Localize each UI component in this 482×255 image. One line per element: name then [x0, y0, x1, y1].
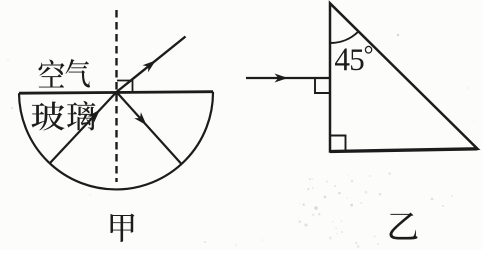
- scan noise speckles: [326, 180, 328, 182]
- prism incident ray line: [246, 77, 329, 79]
- right-angle mark at entry face: [315, 79, 329, 93]
- incident ray in glass: [50, 92, 117, 163]
- prism bottom edge (thicker): [330, 149, 478, 152]
- right-angle mark at corner: [331, 136, 346, 151]
- refracted ray arrowhead: [143, 60, 156, 72]
- incident ray arrowhead: [88, 110, 101, 123]
- label li (glass char2): [67, 101, 96, 130]
- reflected ray arrowhead: [134, 112, 146, 125]
- label kong (air char1): [39, 60, 65, 88]
- 45 degree label digit 4: [335, 49, 349, 71]
- 45 degree label degree sign: [365, 46, 373, 54]
- caption yi: [390, 212, 418, 239]
- glass semicircle arc: [19, 92, 213, 190]
- prism triangle: [330, 3, 478, 151]
- 45 degree label digit 5: [351, 49, 363, 70]
- label qi (air char2): [65, 59, 90, 88]
- glass flat surface: [19, 92, 213, 94]
- refracted ray in air: [117, 37, 186, 93]
- caption jia: [111, 214, 135, 242]
- 45 degree arc: [330, 32, 358, 43]
- normal dashed line: [115, 10, 117, 182]
- reflected ray in glass: [117, 92, 182, 164]
- right-angle mark at surface: [117, 81, 133, 92]
- prism incident ray arrowhead: [275, 74, 289, 83]
- label bo (glass char1): [31, 102, 64, 131]
